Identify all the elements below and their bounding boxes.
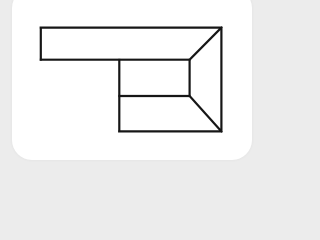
diagonal F-G: [190, 96, 222, 131]
middle horizontal edge F-left: [119, 95, 189, 97]
bottom edge of top bar C-E: [41, 59, 190, 61]
bottom edge H-G: [119, 130, 221, 132]
diagonal E-B: [190, 28, 222, 60]
top edge A-B: [41, 27, 222, 29]
white card panel: [12, 0, 252, 160]
left edge of lower rectangle D-H: [118, 60, 120, 132]
left edge of top bar A-C: [40, 28, 42, 60]
right outer edge B-G: [220, 28, 222, 132]
inner vertical edge E-F: [189, 60, 191, 96]
